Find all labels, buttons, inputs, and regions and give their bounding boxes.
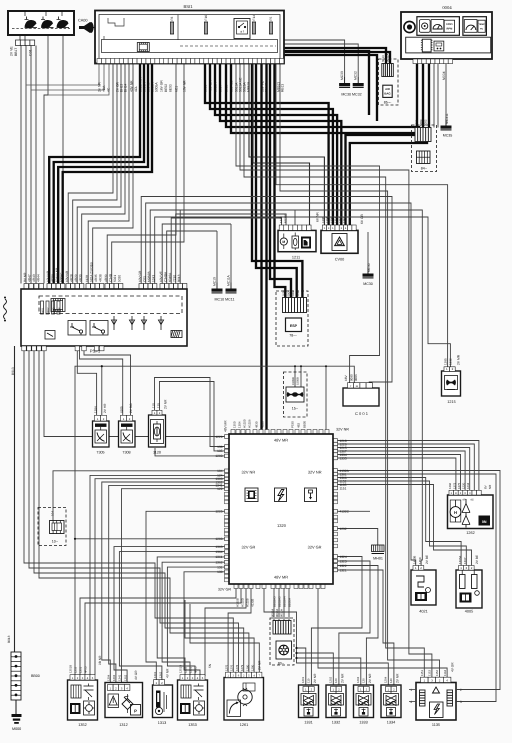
PSF1 diode at x=144 (141, 316, 146, 330)
junction dot 15b (300, 365, 302, 367)
PSF1 small relay (45, 331, 55, 340)
wire 1320 pin 104 to conn 10 (53, 471, 225, 521)
svg-text:BB05: BB05 (303, 421, 307, 428)
svg-text:122: 122 (217, 487, 223, 491)
svg-text:4R29: 4R29 (74, 274, 78, 282)
label 1352 (78, 723, 86, 727)
wire labels 4005 (458, 555, 479, 564)
svg-text:8V NR: 8V NR (23, 272, 27, 282)
svg-text:4P: 4P (462, 499, 465, 502)
wire BSI1 to 1135 col C (280, 64, 440, 678)
wire 1320 BB02A5 to 80 (278, 589, 280, 621)
svg-text:4R43: 4R43 (32, 274, 36, 282)
svg-text:1215: 1215 (447, 400, 455, 404)
wire 1320 1324 to 1331 (311, 557, 362, 687)
dashed connector 84 (412, 125, 437, 172)
svg-text:1342: 1342 (343, 217, 346, 223)
component 1135 coil unit (416, 683, 456, 721)
wire labels 1331 (301, 673, 317, 683)
svg-text:F14: F14 (252, 15, 256, 21)
wire 7305 pin2 junction (101, 366, 103, 415)
wire labels 1215 (444, 354, 461, 365)
component 4021 (411, 570, 436, 605)
svg-text:32V NR: 32V NR (336, 428, 349, 432)
svg-text:1361: 1361 (153, 671, 157, 678)
wire 1320 4132B to 1261 (228, 589, 251, 673)
wire BSI1 to 1135 col E (240, 64, 432, 678)
svg-text:4132C: 4132C (340, 510, 350, 514)
wire labels 1334 (384, 673, 400, 683)
PSF1 left edge sensor symbol (4, 297, 7, 322)
BSI1 pin wire labels (97, 77, 284, 92)
svg-text:1331: 1331 (304, 721, 312, 725)
svg-text:6V GR: 6V GR (360, 213, 364, 224)
wire 1320 1321 to 1334 (338, 570, 394, 687)
junction dot 1320top (325, 365, 327, 367)
label 1333 (359, 721, 367, 725)
1320 text 32V GR right (308, 545, 322, 550)
svg-text:5021: 5021 (113, 275, 117, 282)
PSF1 relay at x=90 (90, 321, 108, 336)
wire labels 1333 (356, 673, 372, 683)
svg-text:5002: 5002 (423, 119, 427, 126)
wire PSF1 to 1215 pin2 (155, 217, 451, 367)
wire 1320 BB02A3 to 80 (273, 589, 275, 621)
wire 7306 pin2 to PSF1 (84, 346, 131, 415)
svg-text:40V OR: 40V OR (208, 80, 212, 92)
1313 pin row (154, 680, 165, 685)
wire 1320 BB05A to 80 (288, 589, 290, 621)
label 1334 (387, 721, 395, 725)
svg-text:1215: 1215 (74, 666, 78, 673)
svg-text:9B NR: 9B NR (98, 655, 102, 665)
svg-text:2V NR: 2V NR (97, 82, 101, 92)
svg-text:4830: 4830 (255, 421, 259, 428)
svg-text:6013: 6013 (381, 55, 385, 62)
svg-text:1450B: 1450B (413, 556, 417, 564)
svg-text:32V NR: 32V NR (308, 470, 322, 475)
CV00 pin labels (322, 217, 346, 223)
wire 1320 1361 to 1135 pin3 (338, 474, 497, 702)
svg-text:10V GR: 10V GR (138, 270, 142, 282)
svg-text:140: 140 (389, 678, 393, 683)
svg-text:1366A: 1366A (458, 556, 462, 564)
component 1261 throttle (224, 678, 264, 721)
connector C01 (16, 40, 35, 46)
svg-text:104: 104 (217, 469, 223, 473)
svg-text:1351B: 1351B (179, 665, 183, 673)
1353 pin row (180, 675, 205, 680)
component 1262 blower (448, 495, 494, 529)
svg-text:135: 135 (157, 403, 161, 408)
svg-text:84--: 84-- (421, 167, 428, 171)
component 1211 fuel pump gauge (278, 230, 316, 251)
ground MC30 lower (363, 268, 374, 287)
svg-text:2V VE: 2V VE (10, 46, 14, 56)
svg-text:B013: B013 (177, 274, 181, 282)
BSI1 fuse F16 (204, 15, 208, 34)
wire labels 1332 (329, 673, 345, 683)
wire horn to BSI1 (92, 27, 96, 29)
svg-text:1362: 1362 (159, 671, 163, 678)
ground MC30 (upper) (339, 71, 350, 87)
svg-text:2V NR: 2V NR (368, 673, 372, 683)
svg-text:1290: 1290 (251, 664, 255, 671)
sensor 7308 (119, 415, 136, 447)
dashed connector 80 (270, 618, 294, 666)
wire bus to 15 b (300, 366, 302, 387)
svg-text:1134: 1134 (443, 670, 447, 676)
svg-text:BE02: BE02 (164, 84, 168, 92)
thick wire BSI1 to CV00 5 (226, 64, 419, 226)
svg-text:1328: 1328 (279, 216, 283, 223)
svg-text:8E03: 8E03 (168, 84, 172, 92)
svg-text:1341: 1341 (118, 674, 122, 681)
wire 1320 H132B to 1352 (80, 589, 236, 675)
svg-text:1351: 1351 (189, 666, 193, 673)
wire nest BSI1-PSF1 6 (93, 64, 133, 284)
BSI1 pin row (97, 59, 284, 64)
ground MH01 (372, 545, 385, 561)
svg-text:5011: 5011 (296, 290, 300, 296)
svg-text:4005: 4005 (465, 610, 473, 614)
1262 wire labels (448, 482, 492, 489)
svg-text:BB05A: BB05A (288, 598, 292, 607)
svg-text:C34BA: C34BA (164, 271, 168, 282)
svg-text:1303: 1303 (112, 674, 116, 681)
wire 1320 1366 to 4005 (338, 478, 462, 566)
svg-text:2: 2 (460, 688, 462, 692)
svg-text:MR3: MR3 (52, 307, 55, 313)
svg-text:H132D: H132D (241, 598, 245, 607)
svg-text:1323: 1323 (340, 559, 347, 563)
svg-text:1220: 1220 (462, 482, 466, 489)
svg-text:MC30: MC30 (367, 263, 371, 272)
wire labels at connector 85 (381, 54, 390, 62)
svg-text:1232: 1232 (340, 527, 347, 531)
label C01 (29, 49, 33, 56)
wire BSI1 pin 2V NR (26, 64, 99, 86)
svg-text:TEMP: TEMP (479, 23, 486, 26)
wire nest BSI1-PSF1 3 (77, 64, 121, 284)
svg-text:CV00: CV00 (335, 258, 345, 262)
svg-text:1232: 1232 (449, 358, 453, 365)
svg-text:8010A: 8010A (275, 609, 279, 617)
dashed connector 15 fan unit (284, 372, 308, 417)
svg-text:MR4: MR4 (58, 307, 61, 313)
dashed connector 78 ESP (276, 291, 308, 346)
svg-text:4: 4 (410, 700, 412, 704)
wire PSF1 to 1261 pin 3 (29, 346, 239, 672)
svg-text:10V NR: 10V NR (46, 270, 50, 282)
svg-text:5002: 5002 (224, 84, 228, 92)
component 1312 (105, 683, 143, 718)
PSF1 internal ground (171, 331, 182, 338)
wire PSF1 to C001 (141, 197, 392, 383)
wire 1120 to 1320 pin 136 (155, 378, 225, 447)
label 1332 (332, 721, 340, 725)
label BB00 (31, 674, 40, 678)
wire D004 to 84 e (437, 64, 439, 128)
label PSF1 (90, 349, 101, 354)
thick wire BSI1 right edge b (284, 55, 377, 121)
svg-text:16V GR: 16V GR (159, 80, 163, 92)
thick wire BSI1 to ESP 3 (270, 64, 291, 298)
wire nest BSI1-PSF1 1 (68, 64, 113, 284)
svg-text:P: P (134, 709, 137, 714)
svg-text:2V MR: 2V MR (457, 354, 461, 365)
svg-text:1505B: 1505B (297, 377, 300, 385)
svg-text:4R30: 4R30 (79, 274, 83, 282)
label 1215 (447, 400, 455, 404)
BSI1 fuse F5 (269, 17, 273, 34)
svg-text:4V GR: 4V GR (134, 670, 138, 680)
injector 1333 (354, 685, 374, 718)
label 1135 (432, 723, 440, 727)
svg-text:1203: 1203 (215, 454, 222, 458)
svg-text:MC311: MC311 (445, 113, 449, 124)
wire PSF1 to 4021 pin1 (146, 203, 416, 566)
svg-text:32V GR: 32V GR (308, 545, 322, 550)
wire labels at connector 84 (415, 119, 428, 126)
svg-text:5N: 5N (208, 663, 212, 668)
wire relay to PSF1 b (62, 35, 64, 284)
svg-text:104: 104 (51, 511, 55, 516)
svg-text:B013: B013 (11, 367, 15, 375)
wire label 2V VE / BB17 (10, 46, 19, 56)
wire labels 7305 (94, 403, 108, 413)
label 1331 (304, 721, 312, 725)
svg-text:5012A: 5012A (213, 82, 217, 92)
svg-text:1351: 1351 (79, 666, 83, 673)
label M C30 (367, 263, 371, 272)
1320 text 32V NR left (242, 470, 256, 475)
wire nest BSI1-PSF1 8 (112, 64, 184, 284)
svg-text:1135: 1135 (432, 723, 440, 727)
wire 1320 to 1262 pin 2 (338, 444, 475, 490)
wire 1320 to 1262 pin 4 (338, 451, 466, 490)
thick wire BSI1 to airbag 85 a (284, 48, 386, 64)
label B013 wire (7, 635, 11, 643)
thick wire BSI1 to 1211 (253, 64, 310, 226)
svg-text:5005A: 5005A (154, 82, 158, 92)
svg-text:8V: 8V (484, 485, 488, 489)
label BSI1 (183, 4, 193, 9)
svg-text:10--: 10-- (52, 540, 59, 544)
svg-text:5004: 5004 (419, 119, 423, 126)
wire PSF1 to 1211 pin2 (176, 214, 286, 284)
wire nest BSI1-PSF1 5 (88, 64, 129, 284)
label MC10 MC11 (215, 298, 235, 302)
svg-text:1305: 1305 (330, 217, 333, 223)
wire C01 to PSF1 1 (20, 46, 22, 284)
ground MC10 (212, 277, 223, 293)
1320 top pin labels (224, 419, 350, 432)
svg-text:1304: 1304 (326, 217, 329, 223)
svg-text:48V MR: 48V MR (274, 575, 288, 580)
svg-text:ESP: ESP (290, 324, 298, 328)
wire nest BSI1-PSF1 2 (73, 64, 117, 284)
wire PSF1 to 4021 pin2 (150, 210, 422, 566)
injector 1334 (381, 685, 401, 718)
svg-text:1341: 1341 (339, 217, 342, 223)
junction dot supply 1 (295, 647, 297, 649)
svg-text:M13B1: M13B1 (283, 213, 287, 223)
thick wire BSI1 to CV00 4 (220, 64, 341, 226)
wire BSI1 pin 4C (48, 64, 109, 96)
svg-text:1630: 1630 (282, 290, 286, 297)
svg-text:P530: P530 (291, 421, 295, 428)
label 1261 (240, 723, 248, 727)
wire to 1261 pin 7 (190, 604, 259, 672)
label 9B NR (98, 655, 102, 665)
wire C01 to PSF1 4 (35, 46, 37, 284)
1262 pin row (449, 490, 481, 495)
D004 box (401, 12, 492, 59)
label 1320 (277, 523, 287, 528)
label M004 (442, 71, 446, 80)
thick wire D004 to 84 a (416, 64, 418, 128)
svg-text:78---: 78--- (289, 334, 297, 338)
svg-text:1315: 1315 (184, 666, 188, 673)
D004 pin row (413, 59, 453, 64)
wire D004 to 84 d (433, 64, 435, 128)
thick wire BSI1 to 1320 top a (260, 64, 262, 430)
wire PSF1 to BB00 (14, 346, 16, 652)
svg-text:1278: 1278 (235, 664, 239, 671)
svg-text:1202: 1202 (329, 676, 333, 683)
svg-text:1396: 1396 (448, 482, 452, 489)
svg-text:H132B: H132B (236, 598, 240, 607)
1320 text 48V MR top (274, 438, 288, 443)
svg-text:1204: 1204 (384, 676, 388, 683)
svg-text:1314: 1314 (335, 217, 338, 223)
1320 text 48V MR bottom (274, 575, 288, 580)
wire 1320 4132C stub (338, 510, 371, 512)
svg-text:4V NR: 4V NR (166, 668, 170, 678)
wire labels 7308 (120, 403, 134, 413)
thick wire BSI1 to 1320 top b (265, 64, 267, 430)
svg-text:1203: 1203 (215, 537, 222, 541)
thick wire BSI1 to PSF1 4 (63, 64, 152, 284)
svg-text:H1326: H1326 (248, 419, 252, 428)
svg-text:MC10 MC11: MC10 MC11 (215, 298, 235, 302)
wire 1320 1322 to 1333 (338, 566, 379, 687)
svg-text:1353: 1353 (188, 723, 196, 727)
svg-text:4C0A: 4C0A (51, 273, 55, 282)
svg-text:130: 130 (362, 678, 366, 683)
connector C001 (343, 388, 379, 406)
BSI1 internal relay a-f (234, 19, 250, 39)
D004 right gauge group (463, 17, 487, 36)
wire 1320 4132A to 1135 pin2 (338, 471, 501, 690)
svg-text:M: M (282, 240, 285, 244)
component CV00 warning switch (321, 230, 358, 253)
svg-text:4B30: 4B30 (261, 421, 265, 428)
BSI1 fuse F6 (170, 17, 174, 34)
label 7305 (96, 451, 104, 455)
thick wire BSI1 to ESP 2 (256, 64, 297, 298)
svg-text:C01: C01 (29, 49, 33, 56)
wire 1320 pin 1364 to 1313 (119, 552, 224, 680)
svg-text:32V NR: 32V NR (242, 470, 256, 475)
C001 pin row (348, 383, 373, 388)
svg-text:BB17: BB17 (14, 48, 18, 56)
svg-text:10V VE: 10V VE (159, 271, 163, 282)
wire labels 1352 (69, 665, 88, 673)
label 2V NR left (258, 660, 262, 670)
thick wire BSI1 to ESP 1 (252, 64, 302, 298)
component 1313 pressure sensor (153, 685, 173, 718)
svg-text:F6: F6 (170, 17, 174, 21)
wire labels at C001 (344, 374, 358, 381)
label 1353 (188, 723, 196, 727)
svg-text:CA00: CA00 (78, 19, 88, 23)
svg-text:3: 3 (460, 700, 462, 704)
svg-text:1152: 1152 (435, 670, 439, 676)
svg-text:5030: 5030 (118, 275, 122, 282)
PSF1 bottom pin squares (22, 346, 104, 351)
wire 1320 1323 to 1332 (338, 561, 371, 687)
wire 1320 to 1262 pin 1 (338, 441, 479, 491)
wire 1320 pin 1225 to 1313 (146, 511, 225, 679)
label C001 (355, 411, 369, 416)
svg-text:1367: 1367 (463, 557, 467, 564)
wire PSF1 to 1320 pin 1229 (44, 346, 225, 437)
component 1353 valve (178, 680, 208, 720)
ECU 1320 box (229, 434, 333, 584)
svg-text:7305: 7305 (96, 451, 104, 455)
wire 1320 to 1262 pin 6 (338, 458, 456, 490)
wire labels 1353 (179, 665, 198, 673)
PSF1 diode at x=132 (129, 316, 134, 330)
svg-text:48V MR: 48V MR (274, 438, 288, 443)
wire C01 to PSF1 3 (30, 46, 32, 284)
dashed connector 10 (38, 508, 66, 546)
svg-text:1313: 1313 (158, 721, 166, 725)
4021 pin row (413, 566, 424, 571)
svg-text:+BA: +BA (102, 85, 106, 92)
svg-text:10V NR: 10V NR (65, 270, 69, 282)
svg-text:1352: 1352 (78, 723, 86, 727)
wire supply branch 1331 (297, 648, 306, 687)
wire BSI1 to MC30 (284, 40, 345, 77)
relay unit CA00 interior switches (8, 11, 74, 35)
svg-text:1350: 1350 (233, 421, 237, 428)
wire bus to C001 and 1352 (75, 366, 354, 675)
ground M000 (12, 714, 22, 731)
label 7308 (122, 451, 130, 455)
svg-text:120: 120 (334, 678, 338, 683)
svg-text:1304: 1304 (238, 421, 242, 428)
svg-text:1151: 1151 (340, 486, 347, 490)
wire 1320 pin 1363 to 1312 (114, 547, 225, 685)
1320 text 32V GR left (242, 545, 256, 550)
svg-text:4P53: 4P53 (84, 666, 88, 673)
1320 right pin squares (333, 439, 338, 572)
svg-text:110: 110 (152, 403, 156, 408)
svg-text:2V NR: 2V NR (258, 660, 262, 670)
junction dot supply 2 (295, 652, 297, 654)
PSF1 diode at x=114 (111, 316, 116, 330)
wire PSF1 to 1261 pin 5 (39, 346, 249, 672)
svg-text:110: 110 (307, 678, 311, 683)
component 4005 (456, 570, 482, 608)
label 5N NR (208, 663, 212, 668)
wire BSI1 to C001 col (236, 64, 380, 383)
wire BB00 to M000 (15, 700, 17, 714)
label CA00 (78, 19, 88, 23)
